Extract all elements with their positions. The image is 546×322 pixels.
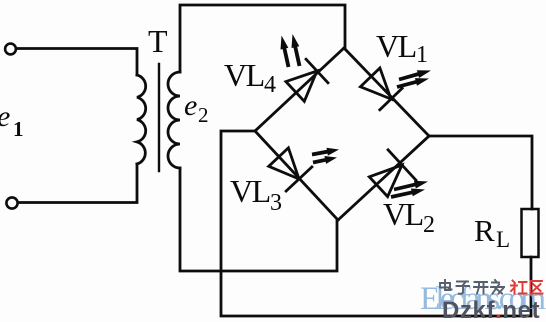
svg-text:e: e xyxy=(184,89,197,122)
watermark xyxy=(420,280,546,322)
wire (bridge edge bottom-right) xyxy=(338,136,429,220)
LED VL2 xyxy=(369,149,428,199)
svg-text:e: e xyxy=(0,100,10,133)
svg-text:Dzkf.net: Dzkf.net xyxy=(442,297,540,322)
svg-text:T: T xyxy=(148,23,168,59)
LED VL3 xyxy=(269,148,339,192)
svg-text:VL: VL xyxy=(230,173,270,209)
svg-text:VL: VL xyxy=(383,196,423,232)
svg-text:3: 3 xyxy=(270,190,282,216)
terminal (lower input) xyxy=(6,197,17,208)
transformer T core xyxy=(158,64,160,171)
svg-text:4: 4 xyxy=(264,72,276,98)
terminal (upper input) xyxy=(5,44,16,55)
wire xyxy=(221,131,531,316)
svg-text:1: 1 xyxy=(416,42,428,68)
wire xyxy=(17,49,138,76)
wire xyxy=(180,168,337,271)
wire (bridge edge top-left) xyxy=(255,48,344,131)
transformer T primary winding xyxy=(137,75,146,164)
wire xyxy=(18,164,137,203)
resistor RL xyxy=(522,209,539,257)
svg-text:1: 1 xyxy=(13,117,24,141)
LED VL1 xyxy=(360,68,431,111)
wire (bridge edge bottom-left) xyxy=(255,131,338,220)
LED VL4 xyxy=(281,34,329,101)
wire xyxy=(429,136,532,209)
wire (bridge edge top-right) xyxy=(344,48,429,136)
transformer T secondary winding xyxy=(168,72,180,168)
svg-text:2: 2 xyxy=(198,103,209,127)
svg-text:R: R xyxy=(474,213,495,248)
svg-text:2: 2 xyxy=(423,212,435,238)
svg-text:L: L xyxy=(496,227,510,252)
wire xyxy=(180,5,345,72)
svg-text:VL: VL xyxy=(224,57,264,93)
svg-text:VL: VL xyxy=(376,28,416,64)
